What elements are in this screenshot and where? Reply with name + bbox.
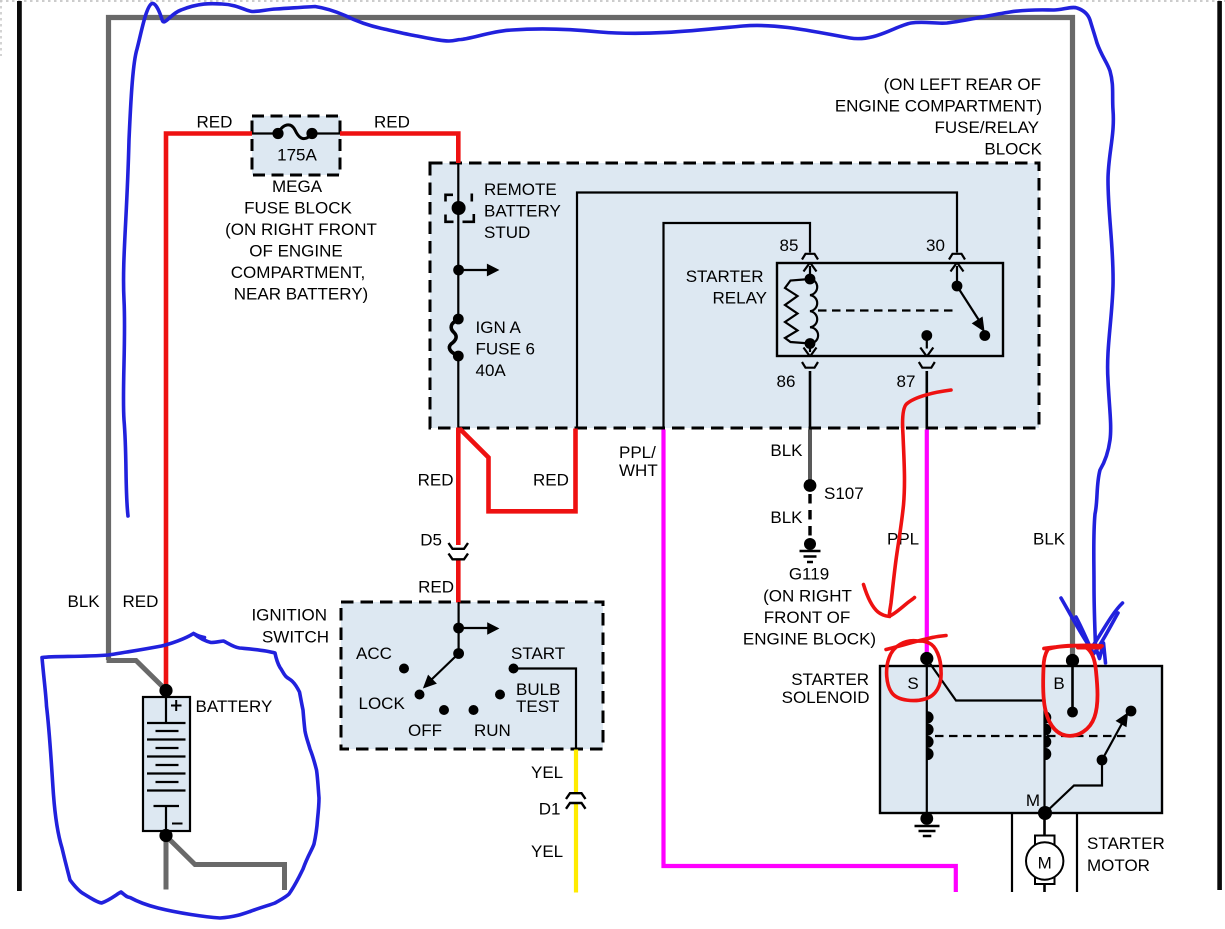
wire BLK battery ground frame (left/top/right): [109, 18, 1073, 661]
svg-text:TEST: TEST: [516, 697, 559, 716]
svg-text:BLK: BLK: [1033, 530, 1066, 549]
solenoid B terminal dot: [1066, 654, 1079, 667]
wire YEL D1 to bottom: [574, 803, 578, 893]
wire battery negative stub down: [164, 836, 169, 890]
relay 86 arrow out of box: [804, 344, 817, 357]
solenoid switch pivot dot: [1097, 755, 1108, 766]
wire solenoid B stub: [1071, 661, 1074, 712]
solenoid B inner dot: [1067, 707, 1078, 718]
svg-text:MEGA: MEGA: [272, 177, 323, 196]
svg-text:RED: RED: [197, 113, 233, 132]
svg-text:START: START: [511, 644, 565, 663]
svg-text:YEL: YEL: [531, 842, 563, 861]
svg-text:IGNITION: IGNITION: [251, 606, 327, 625]
battery minus sign: [172, 823, 183, 825]
svg-text:WHT: WHT: [619, 461, 658, 480]
svg-text:MOTOR: MOTOR: [1087, 856, 1150, 875]
svg-text:(ON RIGHT: (ON RIGHT: [763, 587, 852, 606]
annotation red circle around B terminal: [1043, 645, 1102, 735]
solenoid S terminal dot: [920, 652, 933, 665]
wire BLK relay 86 to S107: [808, 430, 812, 482]
relay 30 arrow into box: [951, 263, 964, 287]
annotation red arrowhead tail: [864, 585, 890, 617]
svg-text:SOLENOID: SOLENOID: [782, 688, 870, 707]
svg-text:FUSE 6: FUSE 6: [476, 340, 536, 359]
annotation blue scribble top and right: [123, 3, 1113, 663]
svg-text:(ON RIGHT FRONT: (ON RIGHT FRONT: [225, 220, 377, 239]
wire RED mega fuse to fuse block: [340, 134, 458, 164]
ignition switch block box: [341, 602, 603, 749]
svg-text:SWITCH: SWITCH: [262, 628, 329, 647]
wire BLK right to solenoid B: [1070, 655, 1076, 660]
svg-text:85: 85: [780, 236, 799, 255]
wire RED block exit to D5: [456, 428, 461, 546]
remote battery stud dot: [452, 201, 466, 215]
svg-text:D5: D5: [420, 531, 442, 550]
svg-text:RED: RED: [533, 471, 569, 490]
svg-text:RED: RED: [374, 113, 410, 132]
ground solenoid symbol: [915, 826, 940, 836]
svg-text:S: S: [907, 674, 918, 693]
ignition OFF dot: [439, 705, 449, 715]
starter solenoid box: [880, 666, 1162, 813]
svg-text:STARTER: STARTER: [791, 670, 869, 689]
solenoid pull-in coil scallops: [1045, 711, 1051, 760]
wire YEL ignition to D1: [574, 750, 578, 794]
relay 30 pin arc: [949, 254, 965, 260]
ignition switch wiper arrow right: [459, 627, 488, 629]
wire solenoid S coil to ground: [926, 659, 928, 818]
svg-text:B: B: [1053, 674, 1064, 693]
wire RED jog loop from relay 30 feed: [460, 429, 576, 512]
wire stud vertical lower: [457, 356, 459, 428]
relay 85 arrow into box: [804, 263, 817, 280]
svg-text:STUD: STUD: [484, 223, 530, 242]
wire solenoid S to pull-in coil: [927, 659, 1045, 813]
relay 30 contact dot: [952, 281, 963, 292]
ignition switch wire between dots: [458, 628, 460, 654]
ignition LOCK dot: [415, 690, 425, 700]
relay blade end dot: [979, 330, 990, 341]
splice S107 dot: [804, 479, 817, 492]
ignition RUN dot: [469, 705, 479, 715]
ignition entry dot: [453, 623, 464, 634]
svg-text:ACC: ACC: [356, 644, 392, 663]
mega fuse block box: [252, 116, 340, 175]
svg-text:RED: RED: [418, 471, 454, 490]
svg-text:S107: S107: [824, 484, 864, 503]
relay 87 pin arc: [919, 362, 935, 368]
wire motor bottom stub: [1043, 884, 1046, 892]
svg-text:COMPARTMENT,: COMPARTMENT,: [231, 263, 365, 282]
wire RED D5 to ignition switch: [456, 560, 461, 603]
svg-text:STARTER: STARTER: [686, 267, 764, 286]
connector D5: [449, 543, 469, 549]
annotation blue loop around battery: [42, 634, 319, 919]
solenoid armature dashed line: [935, 735, 1128, 737]
wire starter motor left lead: [1011, 814, 1013, 893]
connector D1: [566, 793, 586, 799]
starter motor symbol: [1035, 836, 1055, 885]
relay switch blade from 30: [957, 286, 979, 320]
svg-text:FUSE BLOCK: FUSE BLOCK: [244, 199, 352, 218]
fuse 175A terminal dots: [272, 128, 283, 139]
ground G119 symbol: [808, 494, 811, 538]
wire ignition START to YEL exit: [514, 669, 577, 750]
svg-text:RED: RED: [123, 592, 159, 611]
ignition BULB TEST dot: [495, 690, 505, 700]
svg-text:BLK: BLK: [68, 592, 101, 611]
starter relay box: [777, 263, 1003, 356]
battery plus sign: [171, 700, 182, 711]
battery box: [143, 697, 190, 831]
svg-text:G119: G119: [789, 565, 829, 584]
battery positive terminal dot: [159, 684, 172, 697]
solenoid M terminal dot: [1038, 806, 1052, 820]
wire feed to relay 85: [664, 223, 811, 428]
wire battery negative to right stub: [164, 834, 285, 890]
svg-text:30: 30: [926, 236, 945, 255]
svg-text:M: M: [1038, 854, 1052, 873]
fuse/relay block box: [430, 163, 1039, 428]
annotation red overdraw stroke at B: [1078, 646, 1100, 650]
svg-text:175A: 175A: [277, 146, 317, 165]
svg-text:BLK: BLK: [770, 441, 803, 460]
wire relay 86 inside block: [809, 371, 812, 430]
solenoid switch contact dot: [1126, 706, 1137, 717]
svg-text:OFF: OFF: [408, 721, 442, 740]
svg-text:NEAR BATTERY): NEAR BATTERY): [234, 285, 368, 304]
solenoid hold-in coil scallops: [928, 711, 934, 760]
svg-text:LOCK: LOCK: [359, 694, 406, 713]
svg-text:STARTER: STARTER: [1087, 834, 1165, 853]
solenoid ground dot: [920, 812, 933, 825]
relay 87 contact dot: [921, 330, 932, 341]
svg-text:BATTERY: BATTERY: [484, 202, 561, 221]
svg-text:BLOCK: BLOCK: [984, 140, 1042, 159]
wire RED battery to mega fuse: [166, 134, 252, 692]
wire PPL relay 87 to solenoid S: [925, 430, 929, 657]
svg-text:YEL: YEL: [531, 763, 563, 782]
junction arrow to other circuits: [459, 269, 488, 271]
ignition ACC dot: [399, 664, 409, 674]
svg-text:RUN: RUN: [474, 721, 511, 740]
battery negative terminal dot: [159, 829, 172, 842]
fuse 175A element: [278, 125, 312, 139]
ignition START dot: [509, 664, 519, 674]
svg-text:M: M: [1026, 791, 1040, 810]
svg-text:FUSE/RELAY: FUSE/RELAY: [934, 118, 1039, 137]
svg-text:RED: RED: [418, 578, 454, 597]
fuse IGN A 40A element: [449, 320, 458, 356]
svg-text:ENGINE BLOCK): ENGINE BLOCK): [743, 630, 876, 649]
wire M terminal to motor: [1043, 813, 1046, 836]
wire feed to relay 30: [577, 193, 957, 428]
annotation red circle around S terminal: [886, 636, 946, 701]
svg-text:BATTERY: BATTERY: [196, 697, 273, 716]
svg-text:(ON LEFT REAR OF: (ON LEFT REAR OF: [884, 75, 1041, 94]
relay 85 pin arc: [802, 254, 818, 260]
fuse 175A leads: [252, 132, 340, 134]
ground G119 dot: [804, 538, 816, 550]
relay coil dots: [805, 274, 816, 285]
annotation red arrow near 87: [889, 390, 951, 616]
fuse IGN A dots: [453, 314, 464, 325]
annotation blue arrowhead scribble at B: [1061, 598, 1123, 649]
ignition switch arm to LOCK: [430, 654, 459, 682]
wire relay 87 inside block: [925, 371, 928, 430]
relay coil zigzag: [785, 279, 810, 344]
svg-text:IGN A: IGN A: [476, 318, 522, 337]
relay 86 pin arc: [802, 362, 818, 368]
wire stud vertical upper: [457, 163, 459, 319]
wire PPL/WHT from block to bottom: [664, 430, 956, 893]
svg-text:40A: 40A: [476, 361, 507, 380]
relay armature dashed line: [818, 309, 956, 311]
junction dot: [453, 265, 464, 276]
svg-text:PPL/: PPL/: [619, 443, 656, 462]
svg-text:87: 87: [897, 372, 916, 391]
wire ignition entry: [458, 602, 460, 628]
wire solenoid M switch arm: [1045, 760, 1102, 813]
svg-text:RELAY: RELAY: [713, 289, 768, 308]
svg-text:FRONT OF: FRONT OF: [764, 608, 851, 627]
wire starter motor right lead: [1076, 814, 1078, 893]
svg-text:BLK: BLK: [770, 508, 803, 527]
ignition pivot dot: [453, 648, 464, 659]
solenoid switch blade arrow: [1102, 724, 1122, 761]
svg-text:REMOTE: REMOTE: [484, 180, 557, 199]
remote battery stud bracket: [446, 195, 454, 202]
annotation blue stroke at B terminal: [1076, 613, 1118, 654]
svg-text:OF ENGINE: OF ENGINE: [249, 242, 343, 261]
svg-text:D1: D1: [539, 800, 561, 819]
battery plates: [147, 697, 186, 831]
relay coil scallops: [810, 279, 818, 344]
wire BLK jog to battery positive area: [107, 661, 167, 691]
relay 87 arrow out of box: [926, 336, 928, 349]
svg-text:PPL: PPL: [887, 530, 919, 549]
svg-text:ENGINE COMPARTMENT): ENGINE COMPARTMENT): [835, 97, 1042, 116]
svg-text:86: 86: [777, 372, 796, 391]
